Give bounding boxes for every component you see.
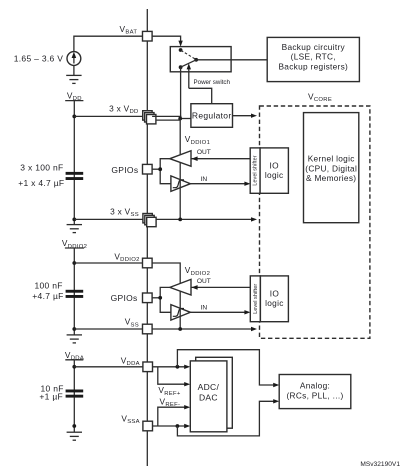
wire VDDA to ADC — [153, 365, 191, 369]
wire VREF+ — [158, 367, 190, 397]
level shifter 2 — [250, 276, 260, 322]
output buffer U4 (OUT2) — [170, 279, 191, 295]
node VDDA rail bottom — [72, 424, 76, 428]
wire IN2 to level shifter — [190, 305, 250, 315]
input buffer U3 (IN1, schmitt) — [171, 176, 191, 192]
node VSSA junction — [176, 424, 180, 428]
svg-text:IO: IO — [270, 160, 280, 170]
svg-text:(LSE, RTC,: (LSE, RTC, — [291, 52, 336, 62]
kernel logic box — [304, 113, 359, 223]
label power switch — [194, 79, 231, 86]
wire switch C to backup circuitry — [196, 59, 267, 61]
pins 3 x VSS (stacked) — [110, 207, 156, 227]
wire V1 bottom to ground — [73, 65, 75, 75]
node VDD rail top — [72, 115, 76, 119]
rail VDDA label — [65, 350, 84, 432]
wire VSSA to ADC — [153, 424, 191, 428]
capacitor C3 (10 nF + 1 uF) — [39, 383, 83, 401]
svg-text:& Memories): & Memories) — [306, 173, 356, 183]
VCORE dashed domain box — [260, 92, 370, 339]
node VSS2 junction — [178, 327, 182, 331]
svg-text:Level shifter: Level shifter — [253, 284, 259, 314]
svg-text:GPIOs: GPIOs — [111, 293, 138, 303]
capacitor C2 (100 nF + 4.7 uF) — [32, 281, 83, 301]
wire VDD rail to 3xVDD pins — [74, 115, 143, 117]
wire VDDA rail to pin — [74, 366, 143, 368]
node VDDIO2 rail top — [72, 261, 76, 265]
switch contact node A — [179, 48, 183, 52]
svg-text:+1 x 4.7 µF: +1 x 4.7 µF — [18, 178, 64, 188]
svg-text:IN: IN — [201, 176, 208, 183]
capacitor C1 (3 x 100 nF + 1 x 4.7 uF) — [18, 163, 83, 188]
svg-text:Backup circuitry: Backup circuitry — [282, 42, 346, 52]
svg-text:100 nF: 100 nF — [35, 281, 63, 291]
node VDDA rail top — [72, 365, 76, 369]
svg-text:1.65 – 3.6 V: 1.65 – 3.6 V — [14, 54, 63, 64]
pin VDDIO2 — [114, 251, 152, 267]
wire V1 top to VBAT pin — [74, 36, 142, 51]
svg-text:+1 µF: +1 µF — [39, 392, 63, 402]
ground G3 — [67, 335, 82, 343]
regulator U1 — [191, 104, 233, 128]
svg-text:(CPU, Digital: (CPU, Digital — [305, 163, 357, 173]
pin VSS — [125, 317, 152, 334]
pin VDDA — [121, 356, 153, 372]
svg-text:Regulator: Regulator — [192, 111, 232, 121]
wire VSS line — [74, 327, 257, 331]
node GPIO1 — [158, 167, 162, 171]
svg-text:(RCs, PLL, ...): (RCs, PLL, ...) — [286, 390, 343, 400]
main pin bus wire — [146, 9, 148, 466]
ADC/DAC stacked box — [190, 357, 232, 432]
svg-text:IO: IO — [270, 288, 280, 298]
wire regulator output to VCORE — [233, 114, 258, 118]
switch solid throw B-C — [181, 60, 197, 67]
wire VDDIO2 rail to pin — [74, 262, 142, 264]
net VDDIO2 wire to OUT2 buffer — [152, 263, 210, 283]
figure reference MSv32190V1 — [360, 461, 400, 468]
ground G2 — [67, 225, 82, 233]
wire OUT1 from level shifter — [191, 149, 250, 161]
wire 3xVDD pins to regulator (double) — [152, 116, 191, 120]
node VDD junction — [178, 117, 182, 121]
node GPIO2 — [158, 296, 162, 300]
wire VSSA to analog block — [177, 399, 279, 436]
switch contact node B — [179, 65, 183, 69]
svg-text:Kernel logic: Kernel logic — [308, 154, 355, 164]
svg-text:MSv32190V1: MSv32190V1 — [360, 461, 400, 468]
rail VDDIO2 label — [62, 238, 87, 335]
node VSS1 junction — [178, 218, 182, 222]
output buffer U2 (OUT1) — [170, 151, 191, 167]
switch dashed throw A-C — [181, 50, 196, 59]
svg-text:+4.7 µF: +4.7 µF — [32, 291, 63, 301]
node VDDA junction — [176, 365, 180, 369]
wire IN1 buffer ground to 3xVSS — [179, 162, 181, 219]
net VDDIO1 wire down to OUT buffer — [180, 119, 210, 155]
wire VDDA to analog block — [177, 350, 279, 388]
svg-text:logic: logic — [265, 170, 284, 180]
node VDD rail bottom — [72, 218, 76, 222]
svg-text:OUT: OUT — [197, 149, 211, 156]
pins 3 x VDD (stacked) — [109, 104, 156, 124]
svg-text:OUT: OUT — [197, 278, 211, 285]
ground G4 — [67, 432, 82, 440]
power switch box — [170, 47, 231, 72]
voltage source V1 (1.65 - 3.6 V) — [14, 52, 81, 66]
wire GPIO2 pad — [152, 287, 171, 312]
wire VREF- — [158, 396, 190, 426]
svg-text:Level shifter: Level shifter — [253, 155, 259, 185]
pin VSSA — [121, 414, 152, 431]
svg-text:DAC: DAC — [199, 392, 218, 402]
svg-text:Power switch: Power switch — [194, 79, 231, 86]
backup circuitry box — [267, 37, 359, 81]
wire IN2 buffer ground to VSS — [179, 291, 181, 329]
wire GPIO1 pad — [152, 159, 171, 184]
analog block box — [279, 375, 351, 409]
IO logic box 2 — [260, 276, 288, 322]
rail VDD label — [65, 91, 83, 225]
pin GPIOs 1 — [111, 164, 152, 175]
pin GPIOs 2 — [111, 293, 153, 303]
svg-text:ADC/: ADC/ — [198, 382, 220, 392]
svg-text:GPIOs: GPIOs — [111, 165, 138, 175]
wire IN1 to level shifter — [190, 176, 250, 186]
wire switch B down to VDD node — [180, 67, 182, 118]
switch common node C — [194, 58, 198, 62]
svg-text:Backup registers): Backup registers) — [278, 61, 348, 71]
wire OUT2 from level shifter — [191, 278, 250, 290]
pin VBAT — [120, 24, 153, 41]
IO logic box 1 — [260, 148, 288, 193]
wire VBAT to power switch — [152, 36, 183, 46]
svg-text:3 x 100 nF: 3 x 100 nF — [20, 163, 63, 173]
wire 3xVSS line — [74, 217, 257, 221]
node VDDIO2 rail bottom — [72, 327, 76, 331]
input buffer U5 (IN2, schmitt) — [171, 305, 191, 321]
svg-text:logic: logic — [265, 298, 284, 308]
svg-text:Analog:: Analog: — [300, 380, 330, 390]
svg-text:IN: IN — [201, 305, 208, 312]
ground G1 — [66, 75, 81, 83]
wire regulator feed arrow up into switch — [187, 63, 212, 103]
level shifter 1 — [250, 148, 260, 193]
